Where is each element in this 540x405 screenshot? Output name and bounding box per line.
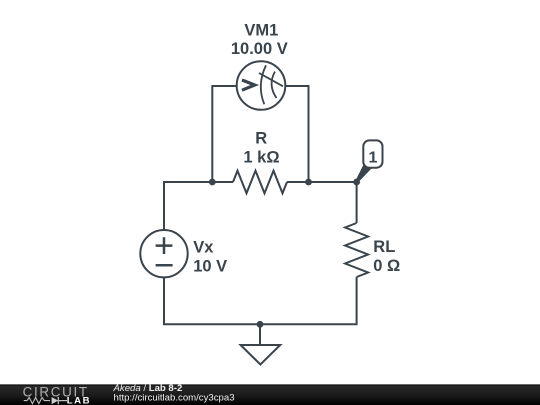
voltmeter VM1 chevron <box>242 80 255 90</box>
junction dot at R left <box>209 179 216 186</box>
logo diode <box>52 397 59 404</box>
svg-text:R: R <box>255 130 267 148</box>
svg-text:Vx: Vx <box>193 239 214 257</box>
voltmeter VM1 needle <box>259 73 283 86</box>
svg-text:VM1: VM1 <box>244 21 278 39</box>
wire: RL bottom to bottom rail to Vx bottom <box>164 277 357 324</box>
voltage source Vx plus sign <box>156 237 173 254</box>
svg-text:10.00 V: 10.00 V <box>231 40 288 58</box>
svg-text:1 kΩ: 1 kΩ <box>243 149 279 167</box>
voltmeter VM1 dial arc right <box>272 72 277 99</box>
node 1 flag box <box>363 140 382 167</box>
logo resistor zigzag <box>24 398 50 404</box>
wire: ground stub <box>259 324 261 345</box>
voltage source Vx minus sign <box>156 264 173 267</box>
svg-text:RL: RL <box>373 238 395 256</box>
wire: VM1 right lead <box>285 86 308 182</box>
junction dot at node 1 <box>353 179 360 186</box>
wire: VM1 left lead <box>212 86 237 182</box>
svg-text:LAB: LAB <box>67 396 91 405</box>
svg-text:0 Ω: 0 Ω <box>373 257 400 275</box>
voltage source Vx body <box>140 230 187 277</box>
svg-text:http://circuitlab.com/cy3cpa3: http://circuitlab.com/cy3cpa3 <box>114 393 235 404</box>
ground <box>241 345 281 365</box>
node 1 flag tail <box>356 165 372 183</box>
resistor R <box>233 171 287 194</box>
voltmeter VM1 dial arc left <box>261 65 266 104</box>
wire: top rail from Vx to R left <box>164 182 233 230</box>
resistor RL <box>345 223 368 277</box>
svg-text:1: 1 <box>368 150 377 167</box>
voltmeter VM1 body <box>237 61 286 110</box>
junction dot at ground rail <box>257 321 264 328</box>
wire: R right to node 1 and down to RL <box>287 182 357 223</box>
svg-text:10 V: 10 V <box>193 257 227 275</box>
junction dot at R right <box>305 179 312 186</box>
